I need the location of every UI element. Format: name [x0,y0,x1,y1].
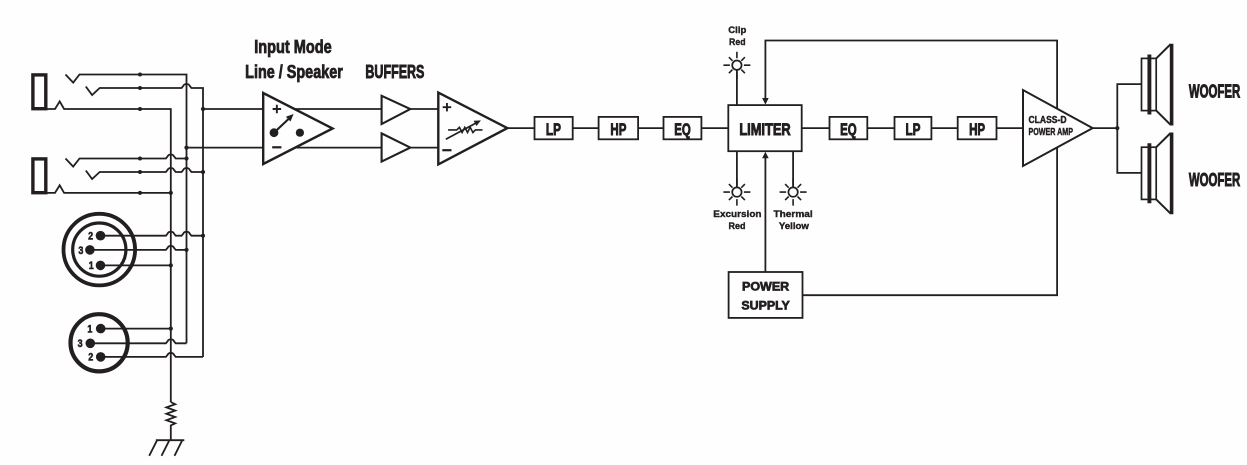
svg-text:Yellow: Yellow [779,221,810,232]
svg-text:POWER: POWER [742,279,789,293]
svg-text:Excursion: Excursion [713,209,761,220]
svg-text:Red: Red [729,221,746,232]
svg-text:HP: HP [969,121,985,139]
svg-text:WOOFER: WOOFER [1189,81,1240,101]
svg-text:Clip: Clip [728,25,746,36]
svg-text:3: 3 [78,338,83,350]
svg-text:Red: Red [729,37,746,48]
svg-text:SUPPLY: SUPPLY [741,298,790,312]
svg-text:EQ: EQ [674,121,691,139]
svg-text:CLASS-D: CLASS-D [1029,115,1067,126]
svg-text:1: 1 [87,323,92,335]
svg-text:POWER AMP: POWER AMP [1029,127,1074,138]
svg-text:LP: LP [546,121,561,139]
svg-text:Thermal: Thermal [774,209,813,220]
svg-text:Line / Speaker: Line / Speaker [245,62,343,82]
svg-text:HP: HP [610,121,626,139]
svg-text:LIMITER: LIMITER [739,121,790,139]
svg-text:3: 3 [78,245,83,257]
svg-text:2: 2 [88,231,93,243]
svg-text:2: 2 [88,352,93,364]
svg-text:1: 1 [89,260,94,272]
svg-text:EQ: EQ [840,121,857,139]
svg-text:BUFFERS: BUFFERS [365,62,424,82]
svg-text:Input Mode: Input Mode [254,37,332,57]
svg-text:LP: LP [906,121,921,139]
svg-text:WOOFER: WOOFER [1189,170,1240,190]
